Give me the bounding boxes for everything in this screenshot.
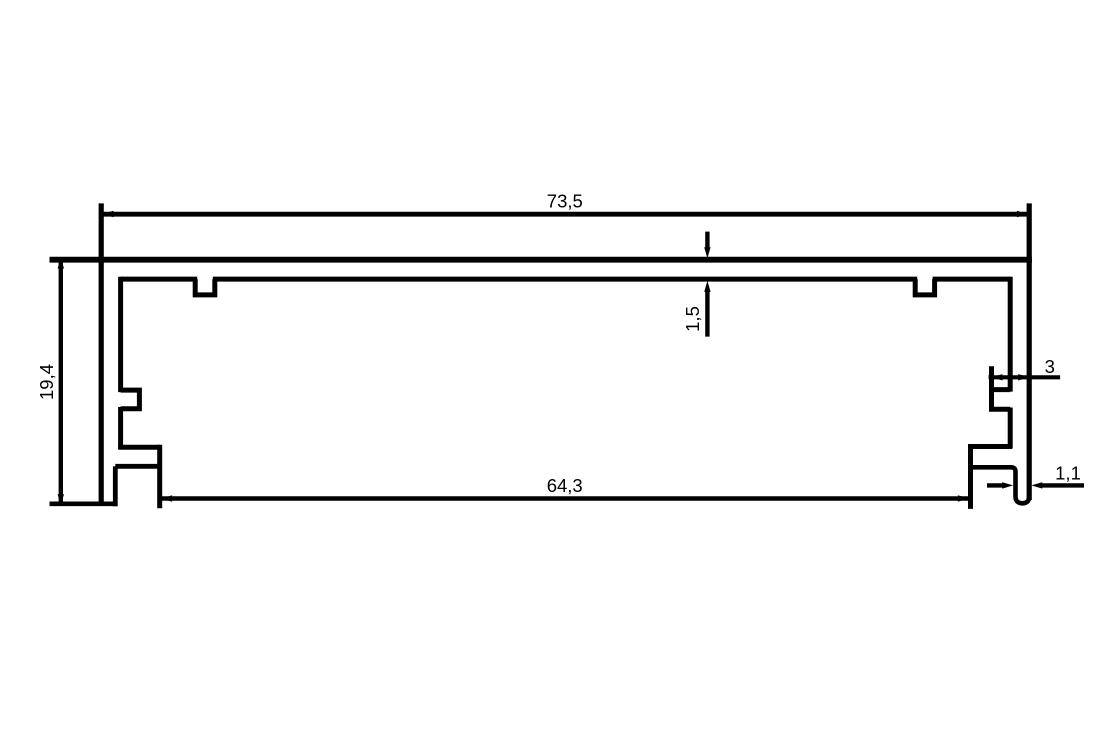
dim 3 right arrow (1018, 374, 1029, 380)
dim 64,3 right arrow (958, 495, 969, 501)
left inner wall upper (118, 277, 123, 392)
right inner wall lower (1008, 408, 1013, 449)
left step top (118, 445, 160, 450)
dim 1,1 right line (1041, 483, 1084, 487)
profile top inner surface segment 1 (121, 277, 198, 282)
dim 1,1 left arrow (points right) (1002, 482, 1013, 488)
dim 1,5 lower line (705, 291, 709, 337)
dim 73,5 line (103, 212, 1027, 217)
dim 19,4 top arrow (58, 258, 64, 269)
dim 64,3 left arrow (161, 495, 172, 501)
left top notch (195, 279, 215, 295)
left step bottom (115, 464, 159, 469)
dim 3 left arrow (992, 374, 1003, 380)
left lip bottom + 19,4 bottom extension (50, 501, 117, 506)
dim 73,5 right arrow (1017, 211, 1028, 217)
dim 19,4 line (59, 259, 63, 503)
profile top inner surface segment 2 (213, 277, 917, 282)
svg-text:19,4: 19,4 (36, 364, 57, 400)
dim 1,1 right arrow (points left) (1031, 482, 1042, 488)
svg-text:1,5: 1,5 (682, 306, 703, 332)
profile top inner surface segment 3 (933, 277, 1011, 282)
right step top (971, 444, 1013, 449)
svg-text:64,3: 64,3 (547, 475, 583, 496)
dim 73,5 left arrow (103, 211, 114, 217)
dim 64,3 line (162, 496, 968, 500)
svg-text:73,5: 73,5 (547, 191, 583, 212)
right foot edge (968, 444, 973, 509)
dim 3 line and leader (989, 375, 1061, 379)
dim 1,5 lower arrow (up) (704, 281, 710, 292)
svg-text:1,1: 1,1 (1055, 462, 1081, 483)
profile outer wall left + 73,5 left extension line (99, 203, 104, 505)
profile outer wall right + 73,5 right extension line (1027, 203, 1032, 500)
right step bottom and lip U (971, 467, 1030, 503)
left foot edge (157, 445, 162, 509)
profile top outer surface + 19,4 top extension (50, 257, 1032, 263)
right top notch (915, 279, 934, 295)
dim 1,1 left line (987, 483, 1004, 487)
dim 1,5 upper line (705, 232, 709, 249)
dim 1,5 upper arrow (down) (704, 247, 710, 258)
left rib (121, 390, 140, 409)
dim 19,4 bottom arrow (58, 494, 64, 505)
right inner wall upper (1008, 277, 1013, 392)
left inner wall lower (118, 407, 123, 449)
svg-text:3: 3 (1045, 356, 1055, 377)
right rib (992, 366, 1011, 409)
left lip inner side (113, 466, 118, 506)
